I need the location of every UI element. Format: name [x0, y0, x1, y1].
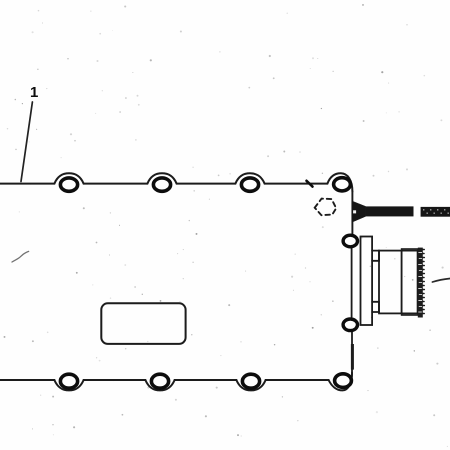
dip under bottom hole 1: [54, 380, 83, 390]
thick doubled strip on right edge: [351, 344, 354, 370]
plate right edge upper segment: [351, 192, 353, 234]
break tick on top edge: [307, 181, 313, 187]
fitting flange: [361, 237, 373, 326]
fitting body divider: [401, 251, 403, 314]
bottom bolt hole 1: [60, 374, 77, 388]
knurl texture white flecks: [418, 252, 422, 313]
knurl serration ticks: [423, 250, 425, 314]
screw head: [352, 201, 365, 222]
top-right corner wrap over hole: [327, 173, 352, 191]
bottom-right corner bolt hole: [335, 374, 352, 388]
dip under bottom hole 3: [236, 380, 265, 390]
squiggle mark: [12, 251, 29, 262]
screw shaft far segment: [421, 207, 450, 217]
svg-text:1: 1: [30, 84, 38, 101]
screw thread texture: [423, 209, 449, 213]
screw shaft: [366, 206, 414, 216]
bottom bolt hole 2: [151, 374, 168, 388]
flange lower bolt hole: [343, 319, 357, 331]
hose curve at right: [432, 279, 450, 283]
plate right edge lower segment: [351, 332, 353, 373]
bump over top hole 3: [235, 173, 264, 183]
cover plate bottom edge: [0, 379, 329, 381]
top bolt hole 3: [241, 178, 258, 191]
plate right edge mid segment: [351, 248, 353, 317]
data plate rounded rectangle: [101, 303, 185, 344]
fitting upper tab: [372, 251, 379, 261]
bottom bolt hole 3: [242, 374, 259, 388]
fitting end cap outline: [402, 249, 418, 315]
cover plate top edge: [0, 183, 327, 185]
top-right corner bolt hole: [334, 178, 351, 191]
dip under bottom hole 2: [145, 380, 174, 390]
knurled end band: [418, 248, 423, 318]
leader line to plate: [21, 102, 32, 182]
dashed hex plug outline: [315, 199, 337, 216]
bottom-right corner wrap under hole: [329, 373, 352, 391]
flange upper bolt hole: [343, 235, 357, 247]
screw head notch: [353, 210, 356, 213]
bump over top hole 1: [54, 173, 83, 183]
top bolt hole 1: [60, 178, 77, 191]
fitting body: [379, 251, 418, 314]
bump over top hole 2: [147, 173, 176, 183]
fitting lower tab: [372, 302, 379, 312]
top bolt hole 2: [153, 178, 170, 191]
